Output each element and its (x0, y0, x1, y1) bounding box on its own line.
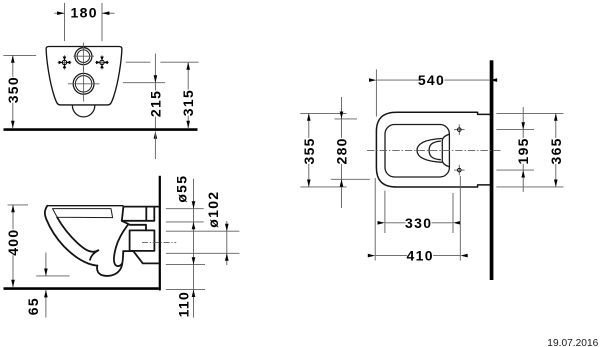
front view: extension line at mounting holes (315 ref) (126, 61, 151, 63)
side view: drain pipe (o102) (130, 230, 155, 251)
side view: shared dimension line for o55 and 110 (193, 179, 195, 318)
side view: dimension 65 (45, 253, 47, 276)
front view: right mounting hole marker (95, 61, 109, 63)
svg-text:365: 365 (548, 137, 564, 164)
front view: toilet body outline (46, 47, 122, 105)
plan view: inner rim (385, 125, 449, 178)
svg-text:355: 355 (301, 137, 317, 164)
side view: bowl inner profile (57, 217, 98, 251)
plan view: ceramic outline (376, 112, 489, 187)
side view: weir descent into trap (90, 250, 98, 259)
side view: dimension 400 (12, 205, 14, 287)
svg-text:330: 330 (405, 215, 432, 231)
plan view: dimension 330 (385, 222, 453, 224)
plan view: dimension 410 (375, 255, 460, 257)
front view: extension line at drain center (215 ref) (123, 82, 165, 84)
plan view: sump flare outline (442, 134, 449, 167)
side view: rim section bar (53, 209, 113, 218)
front view: dimension 315 (187, 62, 189, 128)
side view: extension lines right of wall (110 refs) (166, 264, 205, 266)
svg-text:180: 180 (71, 5, 98, 21)
side view: drain pipe centerline (142, 242, 176, 244)
svg-text:400: 400 (5, 229, 21, 256)
plan view: bowl contour inner arc (429, 141, 440, 160)
svg-text:19.07.2016: 19.07.2016 (547, 338, 598, 347)
plan view: extension lines right of wall (365 refs) (496, 112, 563, 114)
side view: trap/bowl back inner curve (114, 225, 128, 266)
plan view: dimension 280 (341, 97, 343, 208)
plan view: extension lines for 410 (374, 178, 376, 261)
side view: dimension line o102 (226, 221, 228, 265)
plan view: seat mounting cross top (454, 129, 465, 131)
front view: inlet crosshair (73, 55, 94, 57)
side view: drain pipe lower step to wall (123, 251, 159, 263)
plan view: extension lines right of wall (195 refs) (496, 129, 534, 131)
side view: extension lines right of wall (o102 refs) (166, 230, 240, 232)
svg-text:540: 540 (418, 72, 445, 88)
plan view: wall bar (490, 60, 494, 280)
plan view: extension lines for 355 (left) (300, 112, 346, 114)
front view: left mounting hole marker (58, 61, 72, 63)
plan view: seat mounting cross bottom (454, 169, 465, 171)
svg-text:110: 110 (176, 291, 192, 318)
front view: floor line (4, 128, 198, 131)
front view: dimension 180 (hole spacing) (54, 12, 64, 14)
plan view: dimension 355 (308, 113, 310, 186)
plan view: extension line for 540 (front of bowl) (375, 69, 377, 116)
svg-text:215: 215 (147, 90, 163, 117)
front view: extension line top-left (350 ref) (3, 54, 36, 56)
svg-text:ø55: ø55 (174, 175, 190, 203)
svg-text:195: 195 (515, 137, 531, 164)
side view: rim top line (47, 205, 123, 207)
svg-text:280: 280 (334, 137, 350, 164)
front view: water inlet circle (outer) (75, 48, 92, 65)
front view: drain circle (outer) (73, 73, 94, 94)
plan view: extension lines for 330 (384, 191, 386, 234)
side view: seat bracket line (122, 221, 146, 231)
plan view: extension lines for 280 (335, 118, 358, 120)
svg-text:65: 65 (25, 297, 41, 315)
side view: trap outer U (97, 251, 123, 276)
side view: extension line 400 ref (rim top) (8, 204, 29, 206)
side view: bowl outer front profile (45, 206, 97, 266)
plan view: dimension 540 (376, 79, 489, 81)
front view: drain pipe bump below body (72, 106, 94, 117)
front view: water inlet circle (inner) (77, 50, 90, 63)
side view: floor line (4, 287, 159, 290)
svg-text:ø102: ø102 (205, 191, 221, 228)
plan view: bowl contour outer arc (417, 139, 442, 163)
front view: dimension 350 (12, 55, 14, 128)
svg-text:350: 350 (5, 76, 21, 103)
plan view: dimension 365 (555, 113, 557, 186)
side view: flush pipe stub (o55) (145, 207, 147, 221)
front view: drain crosshair (68, 83, 100, 85)
svg-text:315: 315 (180, 89, 196, 116)
plan view: centerline (367, 149, 502, 151)
side view: extension line at trap bottom (65 ref) (36, 275, 69, 277)
svg-text:410: 410 (407, 248, 434, 264)
front view: dimension 215 (154, 54, 156, 83)
front view: drain circle (inner) (75, 76, 91, 92)
plan view: dimension 195 (522, 107, 524, 192)
side view: flush connection box (122, 207, 159, 221)
side view: extension lines right of wall (o55 refs) (166, 208, 204, 210)
side view: wall line (159, 176, 161, 291)
